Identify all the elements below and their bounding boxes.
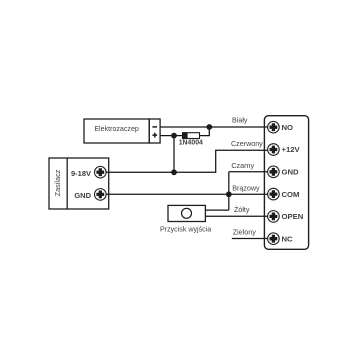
push button Przycisk wyjscia [168,205,205,221]
svg-text:Biały: Biały [232,116,248,124]
svg-text:NC: NC [282,234,294,243]
svg-text:+12V: +12V [282,145,301,154]
wire Czerwony (9-18V to +12V) [106,150,267,172]
svg-text:GND: GND [282,168,300,177]
electric strike Elektrozaczep body [84,119,160,143]
svg-text:Zasilacz: Zasilacz [53,169,62,196]
node junction dot on minus wire (diode) [206,124,212,130]
wire Zolty (button to OPEN) [205,215,267,217]
svg-text:1N4004: 1N4004 [179,140,203,147]
svg-text:GND: GND [74,191,91,200]
wire Elektrozaczep plus to junction [160,135,174,137]
screw terminal COM [268,188,280,200]
svg-text:Zielony: Zielony [233,229,256,237]
svg-text:Czerwony: Czerwony [231,140,263,148]
wire button upper terminal [205,209,228,211]
wire Zielony stub to NC [232,238,268,240]
svg-text:Żółty: Żółty [234,205,250,214]
node junction dot on plus wire [171,133,177,139]
power supply Zasilacz box [49,158,109,209]
screw terminal GND (zasilacz) [95,189,107,201]
node junction dot 9-18V / plus [171,169,177,175]
terminal block housing [264,116,308,250]
svg-text:9-18V: 9-18V [71,169,91,178]
svg-text:Elektrozaczep: Elektrozaczep [94,125,139,133]
screw terminal +12V [268,144,280,156]
svg-text:Przycisk wyjścia: Przycisk wyjścia [160,225,211,233]
wire vertical junction (GND/COM/button) [228,172,230,210]
node junction dot GND/COM/button [226,191,232,197]
wire diode right lead and up to minus wire [200,127,210,136]
screw terminal NC [268,233,280,245]
svg-text:OPEN: OPEN [282,212,304,221]
svg-text:Czarny: Czarny [231,162,254,170]
svg-text:COM: COM [282,190,300,199]
pin minus of Elektrozaczep [152,126,157,128]
wire junction down to 9-18V line [173,136,175,173]
screw terminal 9-18V [95,166,107,178]
wire Brazowy (Zasilacz GND to COM) [106,193,267,195]
diode D1 1N4004 body [183,133,200,139]
wire Bialy (Elektrozaczep minus to NO) [160,126,268,128]
screw terminal OPEN [268,211,280,223]
screw terminal NO [268,121,280,133]
wire diode left lead [174,135,183,137]
wire Czarny (GND screw to junction vertical) [229,171,268,173]
screw terminal GND [268,166,280,178]
pin plus of Elektrozaczep [152,133,157,138]
svg-text:Brązowy: Brązowy [232,185,260,193]
svg-text:NO: NO [282,123,294,132]
